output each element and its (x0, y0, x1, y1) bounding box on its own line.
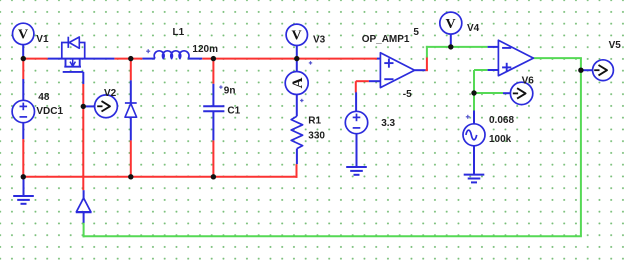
svg-text:3.3: 3.3 (381, 118, 395, 129)
svg-text:V2: V2 (104, 88, 117, 99)
svg-text:V: V (18, 28, 28, 43)
svg-text:V4: V4 (467, 23, 480, 34)
svg-text:VDC1: VDC1 (36, 106, 63, 117)
svg-text:V5: V5 (609, 40, 622, 51)
svg-text:100k: 100k (489, 134, 512, 145)
svg-text:48: 48 (38, 92, 50, 103)
svg-text:L1: L1 (173, 27, 185, 38)
svg-text:V6: V6 (522, 76, 535, 87)
svg-text:V: V (446, 17, 456, 32)
svg-text:A: A (290, 77, 306, 88)
svg-text:C1: C1 (227, 106, 240, 117)
svg-text:5: 5 (413, 27, 419, 38)
svg-text:V1: V1 (36, 34, 49, 45)
svg-text:V3: V3 (313, 35, 326, 46)
svg-text:OP_AMP1: OP_AMP1 (362, 34, 410, 45)
svg-text:330: 330 (308, 131, 325, 142)
svg-text:0.068: 0.068 (489, 115, 514, 126)
svg-text:V: V (292, 29, 302, 44)
svg-text:R1: R1 (308, 116, 321, 127)
svg-text:-5: -5 (403, 89, 412, 100)
svg-text:120m: 120m (192, 44, 218, 55)
svg-text:9n: 9n (224, 86, 236, 97)
